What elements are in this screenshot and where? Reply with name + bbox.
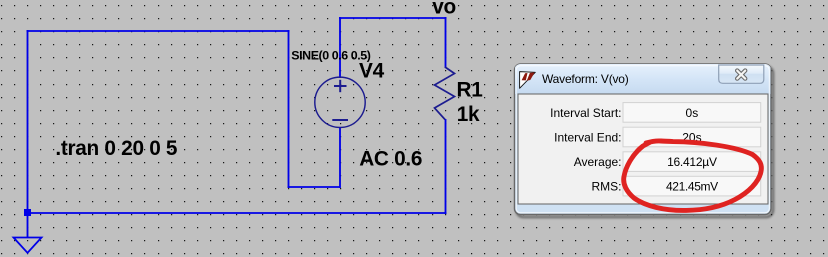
dialog window Waveform: V(vo) — [515, 64, 772, 215]
wire — [445, 17, 447, 68]
wire — [445, 119, 447, 214]
svg-text:R1: R1 — [457, 79, 483, 102]
svg-text:16.412µV: 16.412µV — [667, 155, 717, 169]
svg-text:Waveform: V(vo): Waveform: V(vo) — [542, 72, 629, 86]
ground — [14, 238, 42, 253]
wire — [27, 30, 290, 32]
svg-text:vo: vo — [432, 0, 456, 18]
wire — [27, 213, 29, 238]
dialog content panel — [518, 94, 768, 204]
svg-text:1k: 1k — [457, 103, 480, 126]
wire — [339, 17, 341, 78]
field Average — [623, 152, 761, 172]
svg-text:421.45mV: 421.45mV — [666, 180, 718, 194]
field Interval End — [623, 127, 761, 147]
svg-text:Interval Start:: Interval Start: — [550, 106, 621, 120]
field Interval Start — [623, 103, 761, 123]
svg-text:0s: 0s — [686, 106, 699, 120]
wire — [339, 127, 341, 188]
junction — [24, 209, 31, 216]
voltage source V4 — [315, 77, 365, 127]
svg-text:RMS:: RMS: — [592, 180, 622, 194]
svg-text:Average:: Average: — [574, 155, 622, 169]
wire — [288, 186, 341, 188]
svg-text:Interval End:: Interval End: — [554, 131, 621, 145]
resistor R1 — [435, 67, 455, 120]
svg-text:V4: V4 — [359, 60, 385, 83]
svg-text:.tran 0 20 0 5: .tran 0 20 0 5 — [55, 137, 177, 160]
svg-text:AC 0.6: AC 0.6 — [359, 147, 422, 170]
close button — [719, 65, 764, 83]
dialog shadow — [517, 67, 774, 218]
red annotation ellipse — [624, 141, 762, 210]
dialog icon (LTspice logo) — [520, 72, 536, 89]
wire — [27, 212, 447, 214]
wire — [339, 17, 447, 19]
wire — [288, 30, 290, 188]
wire — [27, 30, 29, 213]
field RMS — [623, 176, 761, 196]
